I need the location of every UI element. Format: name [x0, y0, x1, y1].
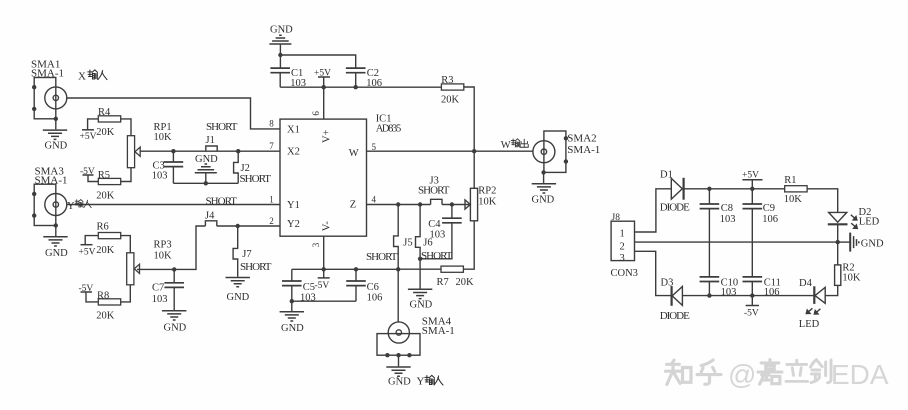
svg-text:C9: C9 — [763, 203, 775, 214]
svg-text:SMA-1: SMA-1 — [567, 144, 600, 156]
capacitor C11 — [743, 277, 781, 298]
potentiometer RP2 (arrow on left) — [465, 186, 497, 221]
svg-text:R8: R8 — [97, 290, 109, 301]
svg-text:+5V: +5V — [742, 170, 759, 180]
wire R4 right to RP1 top — [121, 119, 131, 136]
svg-text:SHORT: SHORT — [240, 261, 272, 273]
svg-text:X1: X1 — [287, 124, 300, 135]
node junction wiper/J2 — [236, 149, 240, 153]
wire R6 right to RP3 top — [121, 236, 131, 253]
svg-text:GND: GND — [45, 248, 68, 259]
ground GND under SMA2 — [532, 184, 557, 206]
svg-text:103: 103 — [720, 214, 736, 225]
svg-text:RP3: RP3 — [154, 240, 172, 251]
jumper J3 — [418, 176, 450, 205]
wire CON3 pin3 to D3 — [635, 251, 672, 295]
svg-text:SMA-1: SMA-1 — [31, 67, 64, 79]
svg-text:J7: J7 — [242, 249, 251, 260]
svg-text:X: X — [78, 71, 86, 83]
power -5V (IC pin3) — [315, 269, 330, 291]
power +5V (R4) — [80, 130, 97, 142]
svg-text:AD835: AD835 — [376, 124, 402, 135]
svg-text:SHORT: SHORT — [240, 173, 272, 185]
jumper J7 — [233, 226, 272, 277]
jumper J4 — [205, 195, 237, 226]
wire W line pin5 to SMA2 — [367, 150, 533, 152]
wire SMA1 to ground — [55, 119, 57, 130]
ground GND under SMA1 — [43, 130, 68, 151]
wire R4 left to +5V — [88, 119, 99, 130]
svg-text:10K: 10K — [842, 272, 861, 283]
svg-text:W: W — [501, 140, 511, 151]
svg-text:R1: R1 — [784, 175, 796, 186]
svg-text:LED: LED — [859, 216, 880, 227]
resistor R8 — [96, 290, 120, 321]
svg-text:GND: GND — [388, 377, 411, 388]
svg-text:R6: R6 — [97, 221, 109, 232]
connector SMA2 — [533, 131, 600, 175]
resistor R5 — [96, 170, 120, 201]
wire C5-C6 bottom link — [292, 300, 356, 302]
wire SMA4 to ground — [398, 355, 400, 366]
svg-text:C5: C5 — [303, 282, 315, 293]
potentiometer RP1 — [127, 122, 172, 168]
wire SMA3 to ground — [55, 226, 57, 237]
svg-text:20K: 20K — [456, 277, 475, 288]
capacitor C8 — [700, 189, 736, 277]
connector SMA1 — [31, 58, 67, 121]
wire D4 to R2 — [825, 285, 838, 295]
svg-text:R7: R7 — [437, 277, 449, 288]
svg-text:SHORT: SHORT — [421, 250, 453, 262]
ground GND rotated (right) — [838, 233, 884, 252]
svg-text:SMA2: SMA2 — [567, 133, 596, 145]
svg-text:J4: J4 — [205, 211, 215, 222]
svg-text:+5V: +5V — [80, 132, 97, 142]
svg-text:Y: Y — [417, 376, 425, 388]
node X input label — [78, 70, 107, 83]
svg-text:GND: GND — [45, 140, 68, 151]
wire bottom bus C5/C6 — [292, 268, 398, 270]
svg-text:103: 103 — [300, 293, 316, 304]
svg-text:10K: 10K — [784, 194, 803, 205]
svg-text:GND: GND — [227, 292, 250, 303]
svg-text:20K: 20K — [96, 127, 115, 138]
wire RP2 bottom to R7 — [463, 221, 474, 269]
capacitor C3 — [152, 151, 183, 183]
node junction wiper/C7 — [172, 267, 176, 271]
svg-text:1: 1 — [269, 195, 274, 205]
svg-text:GND: GND — [270, 25, 293, 36]
capacitor C5 — [282, 269, 316, 303]
wire IC pin3 to -5V bus — [323, 236, 325, 269]
watermark — [666, 359, 889, 390]
wire +5V bus to R3 — [280, 86, 442, 88]
svg-text:Y1: Y1 — [287, 200, 300, 211]
capacitor C10 — [700, 277, 739, 298]
svg-text:V-: V- — [322, 221, 333, 232]
svg-text:C4: C4 — [428, 219, 441, 230]
wire -5V to R8 left — [86, 292, 98, 302]
svg-text:-5V: -5V — [315, 281, 330, 291]
svg-text:D1: D1 — [660, 170, 673, 181]
connector SMA3 — [32, 165, 68, 227]
svg-text:20K: 20K — [96, 191, 115, 202]
svg-text:SMA-1: SMA-1 — [422, 325, 455, 337]
svg-text:DIODE: DIODE — [660, 310, 690, 322]
svg-text:10K: 10K — [478, 197, 497, 208]
capacitor C2 — [346, 68, 382, 89]
LED D2 — [828, 207, 880, 242]
svg-text:106: 106 — [764, 287, 780, 298]
wire RP3 bottom to R8 — [121, 285, 131, 302]
wire C3/GND/J2 bottom bus — [173, 182, 238, 184]
svg-text:SHORT: SHORT — [418, 185, 450, 197]
wire D3 to D4 bottom rail — [682, 295, 814, 297]
svg-text:8: 8 — [269, 119, 274, 129]
svg-text:103: 103 — [721, 287, 737, 298]
capacitor C7 — [152, 269, 184, 310]
svg-text:SHORT: SHORT — [206, 121, 238, 133]
svg-text:3: 3 — [620, 253, 625, 264]
svg-text:Y2: Y2 — [287, 219, 300, 230]
svg-text:20K: 20K — [96, 310, 115, 321]
svg-text:2: 2 — [620, 241, 625, 252]
svg-text:C7: C7 — [152, 283, 164, 294]
svg-text:J6: J6 — [423, 238, 432, 249]
svg-text:D3: D3 — [661, 278, 674, 289]
wire Z line pin4 — [367, 204, 471, 206]
wire D1 to R1 top rail — [684, 188, 785, 190]
svg-text:GND: GND — [532, 195, 555, 206]
power -5V (right) — [744, 296, 759, 319]
ground flipped (C3 area) — [195, 154, 218, 186]
svg-text:SHORT: SHORT — [366, 251, 398, 263]
wire -5V to R5 left — [88, 175, 98, 182]
wire RP3 wiper to corner and up to J4 — [137, 226, 205, 269]
wire R1 to D2 — [807, 189, 838, 213]
svg-text:V+: V+ — [322, 129, 333, 143]
svg-text:1: 1 — [620, 229, 625, 240]
ground GND under C7 — [162, 311, 187, 334]
wire pin 6 stem — [323, 87, 325, 119]
svg-text:J8: J8 — [612, 213, 621, 223]
wire J4 to IC pin 2 — [217, 225, 280, 227]
wire J5 node down to SMA4 — [397, 269, 399, 322]
wire CON3 pin2 mid rail to D2 node — [635, 241, 838, 243]
svg-text:SHORT: SHORT — [206, 195, 238, 207]
svg-text:Y: Y — [67, 201, 75, 212]
svg-text:RP2: RP2 — [478, 186, 496, 197]
svg-text:J1: J1 — [206, 135, 215, 146]
svg-text:10K: 10K — [154, 250, 173, 261]
ground GND under J7 — [226, 278, 250, 303]
svg-text:10K: 10K — [154, 132, 173, 143]
wire X input line to IC pin 8 — [67, 98, 280, 129]
power +5V (IC pin6) — [314, 69, 331, 88]
svg-text:6: 6 — [311, 111, 321, 116]
node junction wiper/C3 — [171, 149, 175, 153]
resistor R4 — [96, 107, 120, 138]
svg-text:3: 3 — [311, 242, 321, 247]
resistor R1 — [784, 175, 807, 205]
svg-text:GND: GND — [164, 323, 187, 334]
power +5V (R6) — [79, 245, 96, 258]
svg-text:20K: 20K — [441, 95, 460, 106]
jumper J1 — [206, 121, 238, 151]
svg-text:CON3: CON3 — [611, 268, 638, 279]
svg-text:103: 103 — [152, 294, 168, 305]
svg-text:DIODE: DIODE — [660, 202, 690, 214]
ground GND under C5 — [280, 301, 305, 334]
wire RP1 wiper line to IC pin 7 — [140, 150, 281, 152]
power -5V (R5) — [80, 167, 95, 177]
svg-text:2: 2 — [269, 216, 274, 226]
svg-text:@: @ — [728, 359, 756, 390]
svg-text:GND: GND — [410, 300, 433, 311]
LED D4 — [799, 278, 825, 330]
svg-text:7: 7 — [269, 141, 274, 151]
svg-text:J5: J5 — [403, 238, 412, 249]
svg-text:4: 4 — [372, 194, 377, 204]
svg-text:R3: R3 — [441, 75, 453, 86]
svg-text:-5V: -5V — [744, 308, 759, 318]
wire R6 left to +5V — [85, 236, 98, 245]
resistor R3 — [441, 75, 464, 106]
svg-text:Z: Z — [350, 199, 356, 210]
jumper J6 — [416, 205, 453, 289]
capacitor C9 — [743, 189, 779, 277]
capacitor C1 — [270, 55, 306, 89]
capacitor C6 — [346, 269, 382, 303]
ground GND under J6 — [408, 289, 433, 310]
connector SMA4 — [377, 316, 455, 358]
svg-text:LED: LED — [799, 319, 820, 330]
svg-text:20K: 20K — [96, 245, 115, 256]
wire top bus GND/C1/C2 — [280, 55, 355, 68]
jumper J5 — [366, 205, 413, 270]
connector J8 CON3 — [611, 213, 638, 279]
capacitor C4 — [420, 205, 462, 259]
node Y input label — [67, 200, 91, 212]
resistor R6 — [96, 221, 120, 256]
wire CON3 pin1 to D1 — [635, 189, 672, 232]
svg-text:D4: D4 — [799, 278, 813, 289]
resistor R2 — [835, 242, 861, 285]
svg-text:C8: C8 — [721, 203, 733, 214]
svg-text:103: 103 — [152, 171, 168, 182]
svg-text:106: 106 — [762, 214, 778, 225]
svg-text:106: 106 — [367, 293, 383, 304]
power -5V (R8) — [79, 284, 94, 294]
ground GND top center (flipped) — [269, 25, 293, 55]
ground GND under SMA4 — [386, 367, 411, 388]
node Y input label (SMA4) — [417, 375, 444, 387]
svg-text:GND: GND — [195, 154, 218, 165]
svg-text:GND: GND — [861, 238, 884, 249]
jumper J2 — [234, 151, 272, 185]
svg-text:R4: R4 — [98, 107, 111, 118]
svg-text:+5V: +5V — [79, 247, 96, 257]
svg-text:GND: GND — [281, 323, 304, 334]
svg-text:C6: C6 — [367, 282, 379, 293]
diode D1 — [660, 170, 690, 214]
diode D3 — [660, 278, 690, 323]
wire Y input line to IC pin 1 — [67, 204, 280, 206]
resistor R7 — [398, 266, 474, 288]
node junction Y2/J7 — [236, 224, 240, 228]
wire R3 right down to W line and RP2 — [464, 87, 474, 188]
ground GND under SMA3 — [43, 237, 68, 259]
svg-text:SMA-1: SMA-1 — [35, 175, 68, 187]
power +5V (right) — [742, 170, 763, 188]
wire SMA2 to ground — [543, 172, 545, 183]
potentiometer RP3 — [127, 240, 172, 285]
svg-text:R5: R5 — [98, 170, 110, 181]
svg-text:EDA: EDA — [831, 359, 889, 390]
svg-text:X2: X2 — [287, 147, 300, 158]
wire RP1 bottom to R5 — [121, 168, 131, 182]
op-amp IC1 AD835 body — [280, 113, 401, 236]
svg-text:W: W — [349, 148, 359, 159]
node W output label — [501, 139, 528, 151]
